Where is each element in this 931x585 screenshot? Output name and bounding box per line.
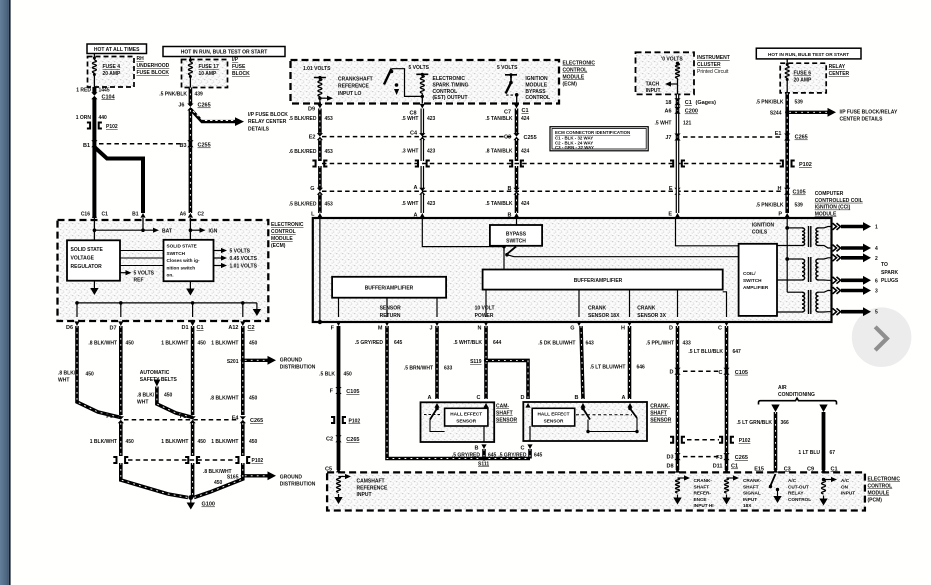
connector A6 C200 <box>674 107 680 114</box>
connector row C105 mid <box>322 190 782 192</box>
svg-text:COMPUTER: COMPUTER <box>815 191 844 197</box>
svg-text:HOT IN RUN, BULB TEST OR START: HOT IN RUN, BULB TEST OR START <box>768 52 849 57</box>
svg-text:.5 PNK/BLK: .5 PNK/BLK <box>159 92 187 98</box>
svg-text:ECM CONNECTOR IDENTIFICATION: ECM CONNECTOR IDENTIFICATION <box>555 130 630 135</box>
svg-text:.5 PPL/WHT: .5 PPL/WHT <box>646 341 674 347</box>
svg-text:Printed Circuit: Printed Circuit <box>697 69 729 75</box>
svg-text:P: P <box>778 212 782 218</box>
header box HOT IN RUN BULB TEST OR START (right) <box>756 48 861 59</box>
wire BLK/RED 453 upper <box>318 109 322 135</box>
tach resistor <box>676 62 679 65</box>
svg-text:10 VOLT: 10 VOLT <box>475 306 495 312</box>
wire F sensor return down to PCM <box>337 326 341 470</box>
arrow TACH INPUT <box>670 83 678 85</box>
svg-text:AUTOMATIC: AUTOMATIC <box>140 370 170 376</box>
wire PNK/BLK 439 from fuse 17 <box>189 88 193 105</box>
wire B into bypass switch <box>516 218 518 225</box>
svg-text:IGNITION (CCI): IGNITION (CCI) <box>815 205 851 211</box>
svg-text:450: 450 <box>249 396 258 402</box>
svg-text:.5 BLK/RED: .5 BLK/RED <box>289 202 317 208</box>
wire C16 feed inside ECM to regulator <box>93 218 95 240</box>
wires below P6 row <box>119 423 123 456</box>
svg-text:.5 WHT/BLK: .5 WHT/BLK <box>453 340 482 346</box>
svg-text:TO: TO <box>881 262 888 268</box>
svg-text:C255: C255 <box>524 135 537 141</box>
svg-text:(PCM): (PCM) <box>868 498 883 504</box>
svg-text:67: 67 <box>830 450 836 456</box>
svg-text:MODULE: MODULE <box>815 211 837 217</box>
svg-text:CONTROL: CONTROL <box>525 95 550 101</box>
svg-text:CONTROL: CONTROL <box>788 497 811 502</box>
wire D1 ground 450 <box>191 326 195 415</box>
switch output arrows 5V 0.45V 1.01V <box>214 250 223 252</box>
svg-text:.5 LT GRN/BLK: .5 LT GRN/BLK <box>737 420 773 426</box>
connector row D C C105 <box>683 370 721 372</box>
ECM dashed box (left) <box>58 220 269 321</box>
svg-text:1 LT BLU: 1 LT BLU <box>798 450 820 456</box>
svg-text:AIR: AIR <box>778 385 787 391</box>
svg-text:.5 TAN/BLK: .5 TAN/BLK <box>485 116 513 122</box>
crank sensor switch internals <box>581 407 585 411</box>
svg-text:440: 440 <box>99 115 108 121</box>
svg-text:C105: C105 <box>735 370 748 376</box>
solid state switch box <box>164 240 214 281</box>
svg-text:S201: S201 <box>227 359 239 365</box>
internal ground bus <box>77 302 257 304</box>
svg-text:D: D <box>521 395 525 401</box>
svg-text:C: C <box>477 395 481 401</box>
svg-text:1: 1 <box>875 225 878 231</box>
wire BLK/RED 453 lower <box>318 166 322 189</box>
svg-text:B1: B1 <box>83 143 90 149</box>
svg-text:CONTROL: CONTROL <box>868 484 893 490</box>
grommet P102 on ORN wire <box>87 123 102 129</box>
svg-text:CRANK-: CRANK- <box>694 478 713 483</box>
svg-text:539: 539 <box>795 203 804 209</box>
svg-text:J: J <box>429 326 432 332</box>
svg-text:CONTROL: CONTROL <box>271 229 296 235</box>
svg-text:RELAY: RELAY <box>829 64 846 70</box>
svg-text:INPUT: INPUT <box>841 491 855 496</box>
svg-text:E: E <box>669 186 673 192</box>
svg-text:645: 645 <box>534 453 543 459</box>
svg-text:MODULE: MODULE <box>525 82 547 88</box>
solid state voltage regulator box <box>67 240 120 280</box>
svg-text:WHT: WHT <box>137 400 148 406</box>
svg-text:P102: P102 <box>739 438 751 444</box>
ECM entry arrow A6 C2 <box>188 213 193 218</box>
svg-text:nition switch: nition switch <box>167 265 196 270</box>
connector E1 C265 <box>784 134 790 141</box>
svg-text:.5 WHT: .5 WHT <box>402 116 419 122</box>
svg-text:C2: C2 <box>198 212 205 218</box>
wire LT BLU 67 A/C on <box>822 412 826 470</box>
svg-text:C105: C105 <box>793 190 806 196</box>
svg-text:RH: RH <box>137 56 145 62</box>
fuse block dashed box (underhood) <box>88 57 135 88</box>
tach wire to connectors <box>676 94 680 213</box>
svg-text:ELECTRONIC: ELECTRONIC <box>271 222 304 228</box>
connector C104 <box>91 92 97 99</box>
svg-text:20 AMP: 20 AMP <box>794 78 813 84</box>
svg-text:.5 GRY/RED: .5 GRY/RED <box>355 340 384 346</box>
svg-text:P6: P6 <box>106 414 113 420</box>
svg-text:1 BLK/WHT: 1 BLK/WHT <box>211 341 238 347</box>
svg-text:I/P FUSE BLOCK/RELAY: I/P FUSE BLOCK/RELAY <box>840 110 898 116</box>
crankshaft reference input hi internals <box>675 468 680 473</box>
svg-text:DISTRIBUTION: DISTRIBUTION <box>280 365 316 371</box>
svg-text:I/P FUSE BLOCK: I/P FUSE BLOCK <box>248 112 288 118</box>
svg-text:ON: ON <box>841 484 849 489</box>
fuse F6 FUSE 6 20 AMP <box>786 59 788 66</box>
svg-text:1 ORN: 1 ORN <box>76 115 92 121</box>
camshaft sensor outer box <box>421 402 495 442</box>
svg-text:AMPLIFIER: AMPLIFIER <box>743 285 769 290</box>
svg-text:.3 WHT: .3 WHT <box>402 149 419 155</box>
ground below regulator <box>93 281 95 285</box>
svg-text:5 VOLTS: 5 VOLTS <box>230 249 251 255</box>
svg-text:BUFFER/AMPLIFIER: BUFFER/AMPLIFIER <box>365 286 414 292</box>
wire WHT 423 mid <box>420 139 424 161</box>
PCM dashed box (bottom) <box>327 472 865 510</box>
svg-text:FUSE 17: FUSE 17 <box>199 64 220 70</box>
spark plug output chevrons and arrows <box>833 223 841 230</box>
svg-text:FUSE 4: FUSE 4 <box>103 64 121 70</box>
svg-text:.5 LT BLU/BLK: .5 LT BLU/BLK <box>688 349 723 355</box>
wire J 633 to cam sensor A <box>435 326 439 399</box>
connector J7 row dashed to E1 <box>674 134 680 141</box>
svg-text:BAT: BAT <box>162 229 172 235</box>
wire C 647 crank signal <box>725 326 729 470</box>
svg-text:A: A <box>622 395 626 401</box>
svg-text:SENSOR: SENSOR <box>496 418 518 424</box>
svg-text:646: 646 <box>637 365 646 371</box>
svg-text:D1: D1 <box>181 325 188 331</box>
wire from EST node down to buffer <box>503 247 505 270</box>
svg-text:C2: C2 <box>248 325 255 331</box>
ground at bus right end <box>256 303 258 306</box>
svg-text:18: 18 <box>665 100 671 106</box>
svg-text:REF: REF <box>134 278 144 284</box>
svg-text:H: H <box>621 326 625 332</box>
svg-text:6: 6 <box>875 278 878 284</box>
svg-text:423: 423 <box>427 201 436 207</box>
svg-text:D8: D8 <box>666 463 673 469</box>
svg-text:IGN: IGN <box>209 229 218 235</box>
svg-text:450: 450 <box>126 439 135 445</box>
crankshaft sensor outer box <box>523 402 647 441</box>
svg-text:C104: C104 <box>102 94 116 100</box>
svg-text:.8 TAN/BLK: .8 TAN/BLK <box>485 149 513 155</box>
svg-text:645: 645 <box>488 453 497 459</box>
svg-text:1.01 VOLTS: 1.01 VOLTS <box>230 264 258 270</box>
svg-text:E4: E4 <box>232 416 240 422</box>
svg-text:CRANK-: CRANK- <box>743 478 762 483</box>
svg-text:MODULE: MODULE <box>271 236 293 242</box>
wire RED feed from fuse 4 to C104 <box>93 87 96 93</box>
svg-text:ELECTRONIC: ELECTRONIC <box>433 76 466 82</box>
ECM connector identification table <box>550 127 648 151</box>
svg-text:REFERENCE: REFERENCE <box>357 485 389 491</box>
bypass switch arm <box>503 247 505 251</box>
EST pullup and switch <box>416 74 428 77</box>
svg-text:INPUT: INPUT <box>743 497 757 502</box>
fuse block dashed box (I/P) <box>182 60 228 88</box>
svg-text:SPARK: SPARK <box>881 270 899 276</box>
svg-text:D: D <box>669 326 673 332</box>
svg-text:J6: J6 <box>178 103 184 109</box>
svg-text:INPUT LO: INPUT LO <box>338 91 361 97</box>
svg-text:H: H <box>778 186 782 192</box>
svg-text:PLUGS: PLUGS <box>881 278 899 284</box>
svg-text:D9: D9 <box>308 107 315 113</box>
svg-text:4: 4 <box>875 246 878 252</box>
svg-text:450: 450 <box>214 480 223 486</box>
wire LT GRN/BLK 366 A/C cutout <box>774 412 778 470</box>
svg-text:CONDITIONING: CONDITIONING <box>778 392 815 398</box>
svg-text:439: 439 <box>195 92 204 98</box>
svg-text:CRANK-: CRANK- <box>650 404 670 410</box>
wire N 10V power 644 <box>484 326 488 399</box>
svg-text:C1: C1 <box>102 212 109 218</box>
svg-text:B: B <box>575 395 579 401</box>
svg-text:SWITCH: SWITCH <box>506 238 526 244</box>
svg-text:1 BLK/WHT: 1 BLK/WHT <box>161 341 188 347</box>
bypass switch box <box>490 225 542 246</box>
svg-text:G: G <box>310 186 314 192</box>
svg-text:C3 - GRN - 32 WAY: C3 - GRN - 32 WAY <box>555 145 594 150</box>
svg-text:S119: S119 <box>470 359 482 365</box>
svg-text:REGULATOR: REGULATOR <box>71 264 103 270</box>
ECM bottom exit arrows D6 D7 D1 C1 A12 C2 <box>74 321 79 326</box>
exit arrows D9 C8 C7 <box>317 104 322 109</box>
grommet row P102 crank wires <box>687 439 719 441</box>
svg-text:ELECTRONIC: ELECTRONIC <box>563 61 596 67</box>
svg-text:G100: G100 <box>202 502 215 508</box>
svg-text:(Gages): (Gages) <box>696 100 717 106</box>
svg-text:366: 366 <box>781 420 790 426</box>
svg-text:.5 BRN/WHT: .5 BRN/WHT <box>404 366 433 372</box>
svg-text:SHAFT: SHAFT <box>650 411 667 417</box>
svg-text:453: 453 <box>325 116 334 122</box>
svg-text:CONTROLLED COIL: CONTROLLED COIL <box>815 198 863 204</box>
svg-text:C16: C16 <box>81 212 90 218</box>
svg-text:.5 PNK/BLK: .5 PNK/BLK <box>756 203 784 209</box>
svg-text:.8 BLK/: .8 BLK/ <box>137 393 155 399</box>
CCI ignition module box <box>313 218 832 322</box>
crankshaft signal input internals <box>724 468 729 473</box>
svg-text:BLOCK: BLOCK <box>232 71 250 77</box>
svg-text:.8 BLK/WHT: .8 BLK/WHT <box>88 341 117 347</box>
wire A EST inside module <box>422 218 504 247</box>
svg-text:F3: F3 <box>716 455 722 461</box>
connector row C255 <box>322 136 514 138</box>
wire WHT 423 upper <box>420 109 424 135</box>
fuse F4 FUSE 4 20 AMP <box>93 54 95 61</box>
svg-text:5 VOLTS: 5 VOLTS <box>497 65 518 71</box>
wire C2 feed inside to switch <box>189 218 191 240</box>
svg-text:C265: C265 <box>250 418 263 424</box>
svg-text:C1: C1 <box>685 100 692 106</box>
svg-text:C1: C1 <box>522 108 529 114</box>
svg-text:450: 450 <box>126 341 135 347</box>
svg-text:P102: P102 <box>799 162 812 168</box>
svg-text:0.45 VOLTS: 0.45 VOLTS <box>230 256 258 262</box>
svg-text:450: 450 <box>198 341 207 347</box>
EST line to coil amplifier <box>507 255 739 257</box>
wires down to CCI module entries <box>318 194 322 214</box>
svg-text:CLUSTER: CLUSTER <box>697 62 721 68</box>
svg-text:HOT IN RUN, BULB TEST OR START: HOT IN RUN, BULB TEST OR START <box>181 50 268 56</box>
cam sensor switch internals <box>435 407 439 411</box>
svg-text:1.01 VOLTS: 1.01 VOLTS <box>303 66 331 72</box>
svg-text:(ECM): (ECM) <box>563 82 578 88</box>
svg-text:SENSOR 3X: SENSOR 3X <box>637 313 666 319</box>
svg-text:CENTER: CENTER <box>829 71 850 77</box>
svg-text:SENSOR: SENSOR <box>380 306 402 312</box>
svg-text:CAM-: CAM- <box>496 404 509 410</box>
svg-text:SENSOR: SENSOR <box>544 418 564 423</box>
header box HOT IN RUN BULB TEST OR START (left) <box>163 47 285 57</box>
A/C cutout relay control internals <box>773 468 778 473</box>
svg-text:SPARK TIMING: SPARK TIMING <box>433 82 469 88</box>
left browser sidebar bar <box>0 0 9 585</box>
svg-text:'0 VOLTS: '0 VOLTS <box>661 57 683 63</box>
svg-text:D3: D3 <box>666 455 673 461</box>
wire M cam signal 645 <box>387 326 530 459</box>
svg-text:C: C <box>719 370 723 376</box>
wire G 643 to crank sensor B <box>581 326 583 399</box>
svg-text:C265: C265 <box>346 437 359 443</box>
svg-text:C265: C265 <box>795 135 808 141</box>
hall effect sensor box (cam) <box>445 408 488 426</box>
svg-text:.5 LT BLU/WHT: .5 LT BLU/WHT <box>590 365 626 371</box>
svg-text:SHAFT: SHAFT <box>694 484 710 489</box>
svg-text:UNDERHOOD: UNDERHOOD <box>137 63 170 69</box>
wire H 646 to crank sensor A <box>628 326 632 399</box>
header box HOT AT ALL TIMES <box>87 44 147 54</box>
svg-text:RELAY: RELAY <box>788 491 804 496</box>
buffer amplifier box left <box>332 277 446 298</box>
wire P ignition feed with taps <box>786 218 788 292</box>
svg-text:C1: C1 <box>731 464 738 470</box>
wires regulator to switch <box>120 250 164 252</box>
svg-text:.5 TAN/BLK: .5 TAN/BLK <box>485 201 513 207</box>
svg-text:P102: P102 <box>349 419 361 425</box>
svg-text:REFERENCE: REFERENCE <box>338 84 370 90</box>
svg-text:633: 633 <box>444 366 453 372</box>
svg-text:INPUT: INPUT <box>357 492 372 498</box>
crank reference pullup resistor <box>314 78 326 81</box>
svg-text:SOLID STATE: SOLID STATE <box>167 244 197 249</box>
wire E inside module to amplifier <box>676 218 739 246</box>
svg-text:1 RED: 1 RED <box>76 88 91 94</box>
svg-text:IGNITION: IGNITION <box>752 223 775 229</box>
svg-text:P102: P102 <box>106 124 118 130</box>
svg-text:ELECTRONIC: ELECTRONIC <box>868 477 901 483</box>
wire C2 ground 450 <box>241 326 245 415</box>
svg-text:(ECM): (ECM) <box>271 243 286 249</box>
svg-text:VOLTAGE: VOLTAGE <box>71 255 95 261</box>
svg-text:C2: C2 <box>326 437 333 443</box>
A/C on input internals <box>821 468 826 473</box>
svg-text:INPUT: INPUT <box>646 88 661 94</box>
svg-text:GROUND: GROUND <box>280 475 303 481</box>
svg-text:C255: C255 <box>198 143 211 149</box>
svg-text:.5 WHT: .5 WHT <box>402 201 419 207</box>
svg-text:HOT AT ALL TIMES: HOT AT ALL TIMES <box>94 47 140 53</box>
svg-text:CUT-OUT: CUT-OUT <box>788 484 809 489</box>
svg-text:COIL/: COIL/ <box>743 271 756 276</box>
svg-text:3: 3 <box>875 289 878 295</box>
svg-text:A/C: A/C <box>788 478 797 483</box>
svg-text:E15: E15 <box>754 467 764 473</box>
svg-text:(EST) OUTPUT: (EST) OUTPUT <box>433 95 468 101</box>
svg-text:453: 453 <box>325 202 334 208</box>
svg-text:C3: C3 <box>784 466 791 472</box>
svg-text:A/C: A/C <box>841 478 850 483</box>
buffer amplifier box right <box>483 270 723 290</box>
svg-text:1 BLK/WHT: 1 BLK/WHT <box>161 439 188 445</box>
svg-text:645: 645 <box>394 340 403 346</box>
svg-text:D: D <box>670 370 674 376</box>
svg-text:.8 BLK/: .8 BLK/ <box>58 371 76 377</box>
svg-text:424: 424 <box>521 116 530 122</box>
svg-text:on.: on. <box>167 273 174 278</box>
svg-text:5 VOLTS: 5 VOLTS <box>134 271 155 277</box>
svg-text:CRANKSHAFT: CRANKSHAFT <box>338 77 373 83</box>
svg-text:C: C <box>718 326 722 332</box>
svg-text:B: B <box>475 446 479 452</box>
svg-text:C105: C105 <box>346 389 359 395</box>
5 VOLTS REF arrow <box>120 272 127 274</box>
coil switch amplifier box <box>739 244 777 316</box>
svg-text:SHAFT: SHAFT <box>743 484 759 489</box>
connector row P6 F1 E4 C265 <box>124 419 239 421</box>
svg-text:C7: C7 <box>504 110 511 116</box>
svg-text:1 BLK/WHT: 1 BLK/WHT <box>211 439 238 445</box>
svg-text:A12: A12 <box>228 325 238 331</box>
svg-text:643: 643 <box>586 341 595 347</box>
svg-text:DISTRIBUTION: DISTRIBUTION <box>280 482 316 488</box>
svg-text:G: G <box>570 326 574 332</box>
svg-text:SHAFT: SHAFT <box>496 411 513 417</box>
svg-text:D11: D11 <box>713 464 723 470</box>
svg-text:450: 450 <box>198 439 207 445</box>
svg-text:TACH: TACH <box>646 82 660 88</box>
svg-text:450: 450 <box>86 372 95 378</box>
ignition coil 1 <box>787 227 802 229</box>
svg-text:C1: C1 <box>831 466 838 472</box>
svg-text:CONTROL: CONTROL <box>433 89 458 95</box>
hall effect sensor box (crank) <box>532 408 575 426</box>
svg-text:423: 423 <box>427 149 436 155</box>
wire PNK/BLK 539 upper <box>785 93 789 213</box>
svg-text:450: 450 <box>249 341 258 347</box>
ground G100 <box>190 500 192 503</box>
svg-text:FUSE: FUSE <box>232 64 246 70</box>
svg-text:2: 2 <box>875 256 878 262</box>
svg-text:450: 450 <box>164 393 173 399</box>
wire L inside module down left edge <box>319 218 321 322</box>
svg-text:1 BLK/WHT: 1 BLK/WHT <box>90 439 117 445</box>
svg-text:424: 424 <box>521 201 530 207</box>
svg-text:COILS: COILS <box>752 230 768 236</box>
svg-text:C265: C265 <box>198 103 211 109</box>
svg-text:POWER: POWER <box>475 313 494 319</box>
svg-text:C9: C9 <box>807 467 814 473</box>
svg-text:D7: D7 <box>109 326 116 332</box>
